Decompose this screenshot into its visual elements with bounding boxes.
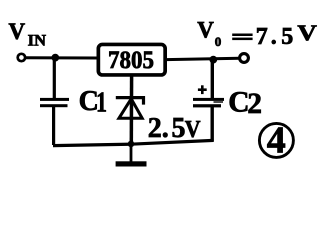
- svg-text:V: V: [297, 20, 317, 45]
- svg-text:5: 5: [172, 113, 186, 144]
- label VIN: [9, 19, 47, 50]
- node ground junction: [128, 141, 135, 148]
- node input junction: [51, 54, 59, 62]
- wire output junction down to C2: [211, 60, 214, 99]
- wire 7805 output: [166, 58, 240, 59]
- svg-text:5: 5: [281, 24, 293, 50]
- svg-text:7805: 7805: [108, 47, 154, 74]
- svg-text:1: 1: [96, 87, 107, 118]
- svg-text:7: 7: [256, 24, 268, 50]
- wire junction down to C1: [53, 58, 56, 99]
- svg-text:4: 4: [267, 120, 286, 162]
- svg-text:2: 2: [247, 88, 262, 120]
- wire input to 7805: [26, 56, 99, 59]
- ground: [116, 144, 147, 167]
- label 2.5V zener voltage: [148, 113, 201, 144]
- wire ground rail: [53, 140, 214, 145]
- svg-text:V: V: [197, 17, 214, 42]
- label Vo = 7.5V: [197, 17, 317, 50]
- capacitor C2: [193, 98, 224, 107]
- svg-text:.: .: [271, 24, 277, 50]
- node output junction: [209, 56, 217, 64]
- wire C2 to ground rail: [210, 107, 213, 142]
- label C2: [228, 86, 262, 120]
- zener diode cathode bar with hook: [116, 98, 144, 105]
- input terminal (Vin node): [18, 54, 25, 61]
- wire C1 to ground rail: [52, 107, 55, 146]
- svg-text:V: V: [185, 117, 201, 143]
- svg-text:.: .: [162, 113, 169, 144]
- svg-text:IN: IN: [28, 33, 47, 50]
- IC U1 7805 regulator: [98, 44, 165, 74]
- svg-text:2: 2: [148, 113, 162, 144]
- figure number 4 (circled): [259, 120, 293, 162]
- output terminal (Vo node): [240, 54, 249, 63]
- zener diode triangle (anode): [119, 99, 142, 119]
- svg-text:0: 0: [215, 34, 222, 49]
- wire 7805 ground pin down through zener to ground rail: [130, 76, 134, 145]
- svg-text:V: V: [9, 19, 26, 44]
- label C1: [79, 86, 107, 118]
- capacitor C2 plus polarity mark: [198, 85, 207, 94]
- capacitor C1: [40, 98, 69, 107]
